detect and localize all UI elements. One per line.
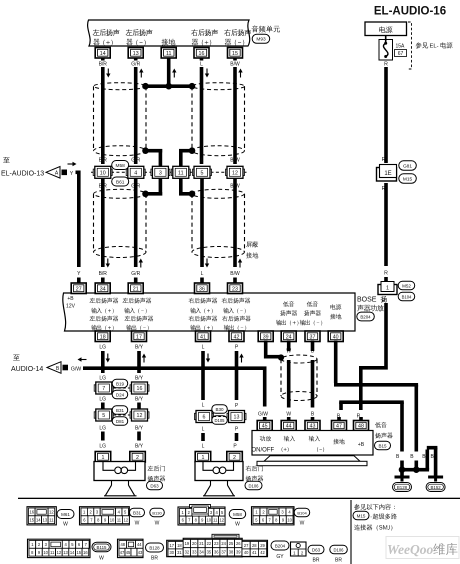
connector label B31 (112, 406, 128, 415)
wire B/Y door (135, 426, 144, 450)
label B/W (230, 158, 240, 190)
label shield ground 屏蔽接地 (246, 241, 258, 258)
svg-text:13: 13 (43, 517, 48, 522)
svg-text:21: 21 (199, 541, 204, 546)
svg-text:67: 67 (398, 51, 404, 57)
svg-text:10: 10 (100, 170, 106, 176)
connector face D63 D106 (291, 542, 348, 564)
svg-text:4: 4 (134, 170, 137, 176)
svg-text:36: 36 (214, 549, 219, 554)
connector 3 (151, 166, 170, 178)
ground bus (144, 84, 194, 88)
connector label B104 (398, 292, 415, 301)
svg-text:ON/OFF: ON/OFF (252, 448, 275, 454)
svg-text:32: 32 (185, 549, 190, 554)
svg-text:28: 28 (252, 543, 257, 548)
svg-text:45: 45 (262, 424, 268, 430)
junction (142, 191, 149, 198)
svg-text:D24: D24 (116, 392, 125, 397)
svg-text:48: 48 (358, 424, 364, 430)
svg-text:7: 7 (102, 386, 105, 392)
svg-text:1: 1 (202, 455, 205, 461)
svg-text:R: R (382, 157, 386, 163)
wire B/W (230, 179, 242, 278)
svg-text:10: 10 (110, 517, 115, 522)
svg-text:W: W (99, 556, 104, 562)
connector 16 (130, 382, 149, 394)
svg-text:W: W (300, 521, 305, 527)
svg-text:38: 38 (229, 549, 234, 554)
connector face B104 (252, 507, 310, 527)
label G/R (131, 158, 140, 190)
svg-text:16: 16 (137, 386, 143, 392)
svg-text:D105: D105 (214, 418, 225, 423)
amp pin 34 (95, 278, 110, 294)
svg-text:41: 41 (252, 550, 257, 555)
svg-text:15A: 15A (396, 44, 406, 50)
svg-text:15: 15 (77, 550, 82, 555)
to EL-AUDIO-13 arrow A (1, 157, 77, 178)
svg-text:B/R: B/R (99, 62, 108, 68)
svg-text:24: 24 (221, 541, 226, 546)
svg-text:B31: B31 (116, 408, 125, 413)
svg-text:44: 44 (137, 542, 142, 547)
wire G/W horizontal (83, 366, 268, 417)
svg-text:37: 37 (221, 549, 226, 554)
svg-text:3: 3 (159, 170, 162, 176)
svg-text:23: 23 (214, 541, 219, 546)
shield upper left (94, 83, 147, 156)
svg-text:L: L (201, 271, 204, 277)
svg-text:B204: B204 (360, 314, 371, 319)
svg-text:11: 11 (166, 51, 172, 57)
svg-text:B61: B61 (116, 179, 125, 185)
svg-text:B/Y: B/Y (135, 376, 144, 382)
svg-text:11: 11 (49, 517, 54, 522)
svg-text:M93: M93 (256, 37, 266, 43)
connector face B31 (80, 507, 165, 527)
audio unit connector M93 (252, 34, 270, 43)
svg-text:10: 10 (287, 517, 292, 522)
speaker pin 2 left (130, 452, 146, 463)
svg-text:LG: LG (99, 426, 106, 432)
svg-text:Y: Y (70, 171, 74, 177)
wire shield drain right (179, 149, 194, 166)
svg-text:D63: D63 (150, 483, 159, 488)
svg-text:36: 36 (199, 286, 205, 292)
svg-text:G/R: G/R (131, 62, 140, 68)
connector label D24 (112, 390, 128, 399)
junction ground2 (413, 466, 420, 473)
woofer pin 43 (305, 417, 320, 431)
svg-text:11: 11 (117, 517, 122, 522)
svg-text:15: 15 (232, 51, 238, 57)
woofer label 低音扬声器 (375, 422, 393, 438)
svg-text:AUDIO-14: AUDIO-14 (11, 366, 43, 373)
svg-text:22: 22 (207, 541, 212, 546)
label L (201, 158, 204, 190)
svg-text:43: 43 (310, 424, 316, 430)
connector label M58 (112, 161, 129, 170)
svg-text:13: 13 (63, 550, 68, 555)
svg-text:1E: 1E (384, 171, 391, 177)
svg-text:12: 12 (219, 518, 224, 523)
svg-text:23: 23 (232, 286, 238, 292)
svg-text:27: 27 (244, 543, 249, 548)
svg-text:B104: B104 (402, 294, 412, 299)
amp pin 40 (328, 331, 343, 342)
wire R (384, 183, 388, 282)
svg-text:LG: LG (99, 376, 106, 382)
ground B152 (426, 476, 445, 492)
wire to ground symbol (400, 470, 404, 476)
connector 12 (226, 166, 245, 178)
wire P door (235, 345, 244, 410)
svg-text:11: 11 (213, 518, 218, 523)
wire shield drain left (144, 149, 162, 166)
svg-text:12V: 12V (66, 304, 76, 310)
svg-text:R: R (384, 271, 388, 277)
connector label B19 (112, 379, 128, 388)
svg-text:L: L (202, 427, 205, 433)
svg-text:R: R (384, 62, 388, 68)
audio unit label 音频单元 (252, 25, 280, 32)
svg-text:B204: B204 (275, 543, 286, 548)
amp pin 27 (71, 278, 86, 294)
connector label B30 (212, 405, 228, 414)
svg-text:14: 14 (36, 517, 41, 522)
svg-text:B/R: B/R (99, 271, 108, 277)
svg-text:W: W (286, 412, 291, 418)
wire LG (99, 345, 110, 382)
svg-text:WeeQoo: WeeQoo (387, 542, 433, 557)
svg-text:34: 34 (199, 549, 204, 554)
shield lower right (192, 189, 245, 257)
svg-text:18: 18 (177, 543, 182, 548)
svg-text:39: 39 (263, 334, 269, 340)
svg-text:LG: LG (99, 345, 106, 351)
svg-text:31: 31 (177, 550, 182, 555)
svg-text:G/W: G/W (258, 412, 268, 418)
speaker pin 1 right (195, 452, 211, 463)
pin 16 (194, 48, 209, 59)
svg-text:47: 47 (336, 424, 342, 430)
svg-text:10: 10 (43, 550, 48, 555)
wire G/R pin13 (131, 58, 143, 164)
svg-text:D106: D106 (248, 483, 259, 488)
connector label D81 (112, 417, 128, 426)
watermark WeeQoo (386, 537, 459, 559)
audio unit box (88, 20, 252, 46)
svg-text:10: 10 (206, 518, 211, 523)
speaker pin 1 left (95, 452, 111, 463)
amp pin 41 (196, 331, 211, 342)
svg-text:11: 11 (50, 550, 55, 555)
connector label G81 (399, 161, 417, 171)
svg-text:B/W: B/W (230, 62, 240, 68)
svg-text:B104: B104 (297, 510, 307, 515)
svg-text:16: 16 (30, 510, 35, 515)
wire ground pin11 (167, 58, 177, 85)
junction ground1 (399, 466, 406, 473)
svg-text:B/Y: B/Y (135, 444, 144, 450)
wire W woofer (286, 341, 291, 418)
svg-text:30: 30 (170, 550, 175, 555)
svg-text:12: 12 (137, 413, 143, 419)
amp pin 39 (258, 331, 273, 342)
svg-text:27: 27 (76, 286, 82, 292)
wire drain lower right (179, 179, 194, 196)
amp pin 18 (95, 331, 110, 342)
svg-text:33: 33 (192, 549, 197, 554)
wire B grounds (396, 446, 437, 476)
connector label M52 (398, 281, 415, 290)
pin 11 (161, 48, 176, 59)
woofer pin 48 (354, 417, 369, 431)
power supply box 电源 (365, 22, 407, 36)
svg-text:D106: D106 (333, 547, 344, 552)
connector face B115 (28, 539, 112, 561)
svg-text:11: 11 (178, 170, 184, 176)
speaker connector D63 (147, 481, 163, 490)
svg-text:19: 19 (185, 541, 190, 546)
svg-text:16: 16 (199, 51, 205, 57)
connector 1E SMJ (377, 157, 397, 192)
svg-text:G/R: G/R (131, 271, 140, 277)
speaker connector D106 (245, 481, 262, 490)
svg-text:35: 35 (207, 549, 212, 554)
ground B128 (393, 476, 412, 492)
svg-text:B30: B30 (215, 407, 224, 412)
svg-text:L: L (202, 444, 205, 450)
wire L (200, 179, 209, 278)
svg-text:G/R: G/R (131, 158, 140, 164)
amp pin 21 (128, 278, 143, 294)
right door speaker label 右后门扬声器 (246, 465, 264, 481)
junction shield right (189, 147, 196, 154)
woofer pin 45 (257, 417, 272, 431)
svg-text:13: 13 (133, 51, 139, 57)
svg-text:21: 21 (133, 286, 139, 292)
svg-text:M58: M58 (116, 163, 126, 169)
svg-text:EL-: EL- (430, 43, 439, 49)
amp pin 24 (281, 331, 296, 342)
reference bracket 参见EL-电源 (408, 22, 453, 69)
connector face M58 (178, 505, 246, 528)
connector face B128 (118, 539, 164, 561)
svg-text:12: 12 (232, 170, 238, 176)
shield upper right (192, 83, 245, 156)
amp pin 36 (195, 278, 210, 294)
svg-text:B/Y: B/Y (135, 426, 144, 432)
wire B woofer (311, 341, 315, 418)
svg-text:12: 12 (49, 510, 54, 515)
connector 5 door (94, 409, 113, 421)
svg-text:B15: B15 (378, 443, 387, 448)
shield lower left (94, 189, 147, 257)
svg-text:B115: B115 (97, 545, 107, 550)
svg-text:W: W (235, 522, 240, 528)
svg-text:26: 26 (236, 541, 241, 546)
wire B amp ground (334, 341, 418, 452)
connector face B204 (167, 534, 289, 560)
woofer box (252, 431, 374, 456)
svg-text:B/R: B/R (99, 158, 108, 164)
connector 10 (93, 166, 112, 178)
svg-text:45: 45 (126, 550, 131, 555)
pin 13 (128, 48, 143, 59)
svg-text:M61: M61 (61, 512, 70, 517)
left rear door speaker (94, 462, 145, 496)
svg-text:18: 18 (100, 334, 106, 340)
svg-text:GY: GY (276, 554, 284, 560)
wire B/R (99, 179, 110, 278)
wire G/R (131, 179, 143, 278)
woofer cone (257, 456, 367, 466)
connector 11 (171, 166, 190, 178)
svg-text:48: 48 (120, 542, 125, 547)
label B/R (99, 158, 108, 190)
pin 14 (95, 48, 110, 59)
wire L door (201, 345, 210, 409)
connector 12 door (130, 409, 149, 421)
svg-text:42: 42 (260, 550, 265, 555)
svg-text:34: 34 (100, 286, 106, 292)
svg-text:42: 42 (234, 334, 240, 340)
left door speaker label 左后门扬声器 (148, 465, 166, 481)
junction (189, 191, 196, 198)
connector row dashes (91, 171, 248, 173)
title EL-AUDIO-16 (374, 6, 446, 18)
pin 15 (228, 48, 243, 59)
svg-text:B/Y: B/Y (135, 345, 144, 351)
connector 7 (94, 382, 113, 394)
amplifier connector B204 (357, 312, 375, 321)
svg-text:G81: G81 (403, 163, 412, 169)
svg-text:B130: B130 (152, 510, 162, 515)
speaker pin 2 right (227, 452, 243, 463)
svg-text:12: 12 (124, 517, 129, 522)
connector 6 (195, 411, 214, 423)
svg-text:2: 2 (136, 455, 139, 461)
svg-text:B/W: B/W (230, 271, 240, 277)
connector face M93 (27, 507, 74, 528)
svg-text:43: 43 (138, 550, 143, 555)
svg-text:L: L (200, 62, 203, 68)
svg-text:2: 2 (233, 455, 236, 461)
svg-text:29: 29 (260, 543, 265, 548)
wire R to woofer (357, 303, 388, 420)
svg-text:BR: BR (335, 558, 342, 564)
svg-text:15: 15 (29, 517, 34, 522)
separator line (18, 498, 460, 499)
svg-text:B152: B152 (430, 485, 441, 490)
svg-text:24: 24 (286, 334, 292, 340)
door connector dashes (114, 388, 130, 415)
right rear door speaker (195, 462, 243, 496)
svg-text:40: 40 (244, 550, 249, 555)
connector label B61 (112, 177, 129, 186)
connector 1 (378, 282, 397, 305)
svg-text:17: 17 (136, 334, 142, 340)
svg-text:W: W (63, 522, 68, 528)
svg-text:B128: B128 (149, 545, 160, 550)
svg-text:L: L (202, 345, 205, 351)
wire L pin16 (200, 58, 210, 164)
svg-text:M58: M58 (233, 512, 242, 517)
svg-text:LG: LG (99, 397, 106, 403)
svg-text:1: 1 (102, 455, 105, 461)
svg-text:B/Y: B/Y (135, 397, 144, 403)
wire L door2 (201, 427, 205, 450)
svg-text:EL-AUDIO-16: EL-AUDIO-16 (374, 6, 446, 18)
wire Y (76, 171, 82, 278)
svg-text:1: 1 (386, 286, 389, 292)
junction shield left (142, 147, 149, 154)
wire P door2 (233, 427, 239, 450)
SMJ note box (351, 500, 397, 564)
wire pin39 to shield (264, 341, 281, 359)
svg-text:B/W: B/W (230, 158, 240, 164)
woofer connector B15 (375, 441, 391, 450)
connector 5 (193, 166, 212, 178)
BOSE amplifier box (63, 293, 355, 331)
svg-text:6: 6 (203, 415, 206, 421)
svg-text:47: 47 (120, 550, 125, 555)
svg-text:M52: M52 (402, 283, 411, 288)
svg-text:LG: LG (99, 444, 106, 450)
wire B woofer ground (337, 400, 404, 451)
svg-text:37: 37 (310, 334, 316, 340)
fuse 15A 67 (379, 36, 407, 61)
svg-text:12: 12 (57, 550, 62, 555)
wire B/W pin15 (230, 58, 242, 164)
connector label M15 (399, 174, 417, 184)
connector label D105 (212, 416, 228, 425)
svg-text:BR: BR (313, 558, 320, 564)
svg-text:+B: +B (358, 442, 365, 448)
svg-text:L: L (202, 403, 205, 409)
svg-text:B128: B128 (397, 485, 408, 490)
svg-text:W: W (135, 521, 140, 527)
wire R power (384, 62, 388, 164)
svg-text:BR: BR (151, 556, 158, 562)
svg-text:5: 5 (201, 170, 204, 176)
amp pin 17 (132, 331, 147, 342)
svg-text:L: L (201, 158, 204, 164)
wire B/R pin14 (99, 58, 111, 164)
svg-text:13: 13 (234, 415, 240, 421)
svg-text:G/W: G/W (71, 366, 81, 372)
svg-text:25: 25 (229, 541, 234, 546)
wire B/Y (135, 397, 144, 410)
amp pin 23 (228, 278, 243, 294)
svg-text:5: 5 (102, 413, 105, 419)
svg-text:+B: +B (67, 296, 74, 302)
to AUDIO-14 arrow B (11, 355, 87, 374)
amplifier label BOSE 扬声器功放 (357, 296, 387, 312)
svg-text:B31: B31 (133, 510, 142, 515)
woofer pin 44 (281, 417, 296, 431)
woofer pin 47 (332, 417, 347, 431)
junction (189, 83, 196, 90)
junction (142, 83, 149, 90)
svg-text:BOSE: BOSE (357, 297, 377, 304)
wire B/Y (135, 345, 146, 382)
svg-text:B19: B19 (116, 381, 125, 386)
connector 4 (126, 166, 145, 178)
amp pin 42 (229, 331, 244, 342)
